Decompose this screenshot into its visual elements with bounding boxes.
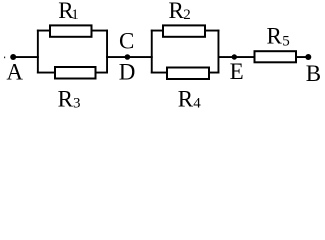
- wire right vertical bus of first parallel pair: [106, 30, 108, 74]
- svg-text:R: R: [178, 87, 194, 112]
- wire left vertical bus of first parallel pair: [37, 30, 39, 74]
- wire R1 to right vertical: [92, 30, 108, 32]
- wire A to left vertical: [13, 56, 39, 58]
- svg-text:5: 5: [282, 33, 290, 49]
- svg-text:D: D: [119, 59, 136, 84]
- svg-text:R: R: [267, 23, 283, 48]
- wire top-left stub to R1: [37, 30, 50, 32]
- wire right vertical bus of second parallel pair: [218, 30, 220, 74]
- wire R2 to right vertical: [204, 30, 219, 32]
- wire node E segment to R5: [218, 56, 256, 58]
- resistor R3: [55, 67, 96, 79]
- svg-text:3: 3: [73, 96, 81, 112]
- node A junction dot: [10, 54, 16, 60]
- node C/D junction dot: [125, 54, 131, 60]
- svg-text:C: C: [119, 29, 134, 54]
- svg-text:R: R: [169, 0, 185, 23]
- stray speck left of node A: [4, 57, 5, 59]
- wire left vertical bus of second parallel pair: [151, 30, 153, 74]
- svg-text:2: 2: [183, 7, 191, 23]
- wire middle segment C/D to second group: [106, 56, 153, 58]
- svg-text:1: 1: [71, 7, 79, 23]
- svg-text:E: E: [230, 59, 244, 84]
- resistor R2: [163, 25, 205, 36]
- wire R5 to node B: [295, 56, 309, 58]
- svg-text:B: B: [306, 61, 321, 86]
- svg-text:A: A: [6, 60, 23, 85]
- wire bottom stub to R4: [151, 72, 168, 74]
- wire top stub to R2: [151, 30, 164, 32]
- svg-text:R: R: [58, 87, 74, 112]
- resistor R1: [50, 25, 92, 36]
- wire R3 to right vertical: [95, 72, 108, 74]
- wire R4 to right vertical: [208, 72, 219, 74]
- svg-text:4: 4: [193, 96, 201, 112]
- node E junction dot: [232, 54, 237, 59]
- resistor R5: [255, 51, 297, 62]
- node B terminal dot: [305, 54, 311, 60]
- wire bottom-left stub to R3: [37, 72, 55, 74]
- resistor R4: [167, 68, 209, 80]
